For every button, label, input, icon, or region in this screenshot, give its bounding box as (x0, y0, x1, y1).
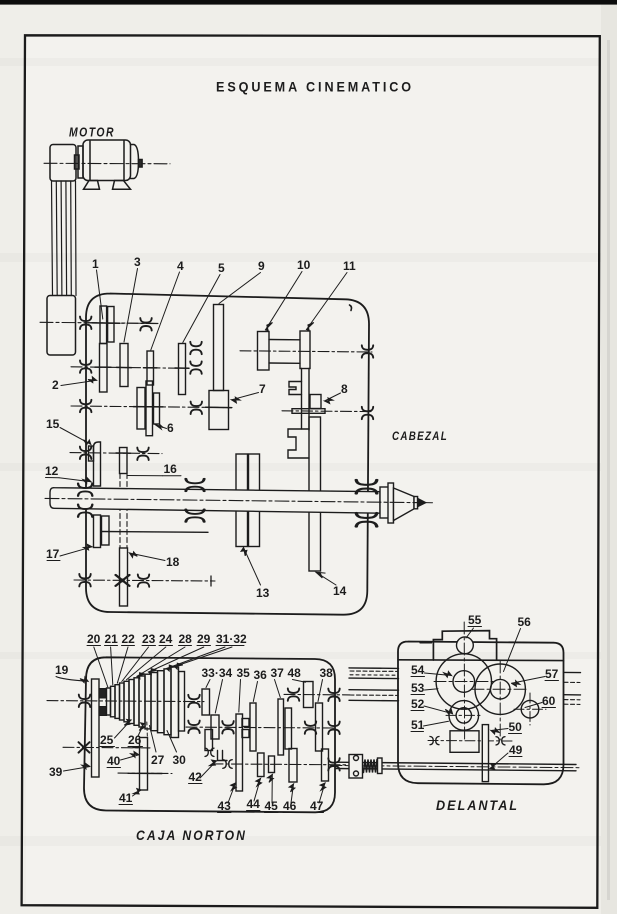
svg-text:47: 47 (310, 799, 324, 813)
bearing left edge shaft I (80, 317, 91, 329)
gear 5 (179, 344, 186, 395)
svg-text:45: 45 (265, 799, 279, 813)
norton cone gear 29 (151, 673, 158, 731)
svg-text:6: 6 (167, 421, 174, 435)
gear 14 (309, 417, 321, 571)
norton cone gear (134, 678, 139, 726)
norton cone gear (158, 671, 165, 733)
svg-text:5: 5 (218, 261, 225, 275)
spindle nose cone (394, 488, 415, 521)
bearing shaft IV right of gear 16 (137, 448, 148, 460)
gear 56 horizontal centerline (472, 688, 529, 690)
bearing left edge shaft IV (80, 447, 91, 459)
svg-text:8: 8 (341, 382, 348, 396)
clutch plate on shaft VI (292, 409, 325, 414)
shaft IV centerline (70, 453, 162, 454)
svg-text:53: 53 (411, 681, 425, 695)
bearing shaft I right (140, 318, 151, 330)
gear 60 vertical centerline (529, 693, 531, 725)
gear 37 companion (285, 708, 292, 749)
bearing mid spindle top (186, 479, 204, 491)
svg-text:22: 22 (122, 632, 136, 646)
vertical centerline through 55 53 52 (463, 622, 465, 741)
spindle body (50, 488, 380, 514)
shaft I centerline (88, 322, 160, 325)
rods exiting right of delantal (564, 671, 581, 673)
delantal housing box (398, 642, 564, 785)
bearing above gear 5 lower (190, 361, 201, 373)
gear 57 hub circle (490, 679, 510, 699)
svg-text:54: 54 (411, 663, 425, 677)
motor axis centerline (44, 162, 170, 165)
gear 53 horizontal centerline (434, 681, 493, 683)
hub tick shaft II through gear 5 (175, 367, 189, 369)
gear 17 hub line (101, 531, 208, 534)
svg-text:17: 17 (46, 547, 60, 561)
bearing shaft 4 thrust (223, 760, 232, 769)
long feed shaft upper line (336, 762, 577, 764)
svg-text:50: 50 (509, 720, 523, 734)
gear 60 circle (521, 700, 539, 718)
bearing norton shaft 3 left edge (79, 742, 90, 752)
bearing left edge shaft VII (79, 574, 90, 586)
gear 40 hub tick (133, 747, 140, 749)
hub tick shaft II through gear 3 (117, 366, 132, 368)
gear 8 (310, 395, 321, 409)
svg-text:51: 51 (411, 718, 425, 732)
lead screw upper line (349, 667, 399, 670)
bearing worm shaft right (496, 737, 505, 745)
delantal lid seam (398, 659, 564, 662)
clutch 35 lower block (242, 730, 249, 738)
gear 17 cluster right (102, 516, 110, 545)
svg-text:16: 16 (164, 462, 178, 476)
svg-text:2: 2 (52, 378, 59, 392)
worm bracket plate (349, 755, 363, 779)
top scan bar (0, 0, 617, 5)
gear 51 hub circle (456, 708, 471, 723)
gear 17 cluster left (94, 515, 101, 548)
hub tick shaft I through gear 1 (92, 322, 120, 324)
motor shaft stub (139, 160, 143, 168)
bearing left edge shaft III (80, 400, 91, 412)
gear 13 right (249, 454, 260, 547)
bearing shaft III right of gear 6 (191, 402, 202, 414)
bearing norton left edge cone shaft (79, 695, 90, 707)
gear 4 (147, 351, 154, 385)
gear 3 (120, 344, 128, 387)
bearing shaft VII mid (138, 574, 149, 586)
svg-text:26: 26 (128, 733, 142, 747)
bearing right edge shaft VI (362, 407, 373, 419)
bearing cone right (188, 695, 199, 707)
lead screw lower line (349, 677, 399, 680)
norton cone gear 28 (139, 676, 145, 727)
norton cone gear 21 (111, 686, 116, 717)
svg-text:4: 4 (177, 259, 184, 273)
worm box (450, 731, 479, 753)
gear 10 (258, 332, 270, 371)
norton shaft 2 centerline (186, 726, 334, 729)
svg-text:21: 21 (105, 632, 119, 646)
svg-text:28: 28 (179, 632, 193, 646)
bearing shaft 2 right (305, 721, 316, 733)
shaft VII end tick (210, 576, 212, 586)
norton shaft 3 centerline (63, 746, 150, 749)
dog clutch notch upper (289, 382, 302, 395)
svg-text:CAJA NORTON: CAJA NORTON (136, 827, 247, 843)
long feed shaft centerline (330, 765, 580, 767)
svg-text:33·34: 33·34 (202, 666, 233, 680)
svg-text:9: 9 (258, 259, 265, 273)
svg-text:11: 11 (343, 259, 356, 273)
bearing feed shaft edge (328, 689, 339, 701)
gear 1 left half (100, 306, 107, 344)
bearing shaft 2 left (188, 721, 199, 733)
motor body (83, 140, 131, 181)
gear 9 (214, 305, 224, 391)
motor pulley (75, 155, 80, 169)
svg-text:1: 1 (92, 257, 99, 271)
norton shaft 3 hub line (118, 772, 172, 774)
gear 13 left (236, 454, 248, 547)
worm bracket circle upper (354, 756, 359, 761)
svg-text:42: 42 (189, 770, 203, 784)
svg-text:56: 56 (518, 615, 532, 629)
gear 52 outer circle (449, 701, 479, 731)
svg-text:ESQUEMA CINEMATICO: ESQUEMA CINEMATICO (216, 80, 414, 95)
bearing above gear 5 upper (190, 342, 201, 354)
clutch stem below gear 11 (301, 369, 303, 430)
caja norton housing box (84, 657, 335, 812)
bearing worm shaft left (430, 736, 439, 744)
gear 48 (304, 682, 314, 708)
long feed shaft lower line (336, 769, 577, 771)
svg-text:39: 39 (49, 765, 63, 779)
worm bracket circle lower (354, 771, 359, 776)
motor right cap (131, 145, 139, 179)
gear 1 right half (108, 307, 114, 343)
spline block upper (99, 689, 107, 699)
norton cone shaft centerline (47, 701, 204, 702)
gear 37 (278, 699, 284, 755)
hub tick shaft IV through gear 16 (116, 452, 131, 454)
svg-text:40: 40 (107, 754, 121, 768)
shaft II centerline (71, 367, 178, 368)
gear 38 (316, 703, 323, 751)
motor left end plate (78, 146, 83, 178)
motor foot right (113, 181, 131, 190)
gear 55 circle (457, 637, 474, 654)
svg-text:10: 10 (297, 258, 311, 272)
gear 42 step link (218, 751, 228, 761)
gear 2 (100, 344, 108, 393)
spindle nose cylinder (414, 497, 418, 509)
norton cone gear 20 (107, 688, 111, 715)
svg-text:24: 24 (159, 632, 173, 646)
svg-text:DELANTAL: DELANTAL (436, 797, 519, 813)
worm shaft centerline (428, 740, 512, 743)
worm teeth (364, 760, 378, 773)
svg-text:60: 60 (542, 694, 556, 708)
norton cone gear 31 (164, 669, 171, 735)
pulley shaft centerline (40, 322, 158, 323)
gear 45 (269, 756, 275, 773)
spindle flange plate (388, 483, 394, 523)
svg-text:23: 23 (142, 632, 156, 646)
bearing mid spindle bottom (186, 509, 204, 521)
gear 16 (120, 448, 128, 474)
bearing under gear 42 (205, 748, 214, 756)
bearing right edge shaft V (362, 345, 373, 357)
bearing right edge spindle top (356, 480, 377, 494)
norton shaft 4 centerline (212, 763, 348, 766)
hub tick shaft III through gear 7 (206, 406, 232, 408)
svg-text:41: 41 (119, 791, 133, 805)
gear 53 outer circle (436, 654, 491, 709)
svg-text:13: 13 (256, 586, 270, 600)
gear 34 (211, 715, 219, 739)
gear 6 cluster left (137, 388, 145, 430)
belt lines (52, 181, 53, 296)
svg-text:30: 30 (173, 753, 187, 767)
norton cone gear 32 (171, 667, 179, 738)
bearing left edge spindle top (78, 484, 92, 496)
svg-text:49: 49 (509, 743, 523, 757)
dog clutch notch lower (288, 429, 309, 458)
gear 47 (322, 749, 329, 781)
gear 60 horizontal centerline (514, 708, 546, 710)
norton cone gear 22 (115, 685, 120, 719)
norton feed shaft centerline (284, 693, 350, 696)
svg-text:MOTOR: MOTOR (69, 126, 115, 140)
bearing left edge spindle bottom (78, 505, 92, 517)
svg-text:57: 57 (545, 667, 559, 681)
gear 11 (300, 331, 310, 369)
svg-text:31·32: 31·32 (216, 632, 247, 646)
gear 18 slide dashed guide (119, 474, 121, 549)
spindle center point (418, 499, 426, 507)
svg-text:38: 38 (320, 666, 334, 680)
bearing left edge shaft II (80, 360, 91, 372)
worm right plate (378, 758, 383, 774)
stub line left of tower (420, 642, 432, 644)
gear 40 41 (140, 738, 148, 791)
spindle axis centerline (45, 498, 425, 502)
cabezal housing box (86, 294, 369, 615)
svg-text:48: 48 (288, 666, 302, 680)
gear 56 outer circle (475, 664, 525, 714)
bearing shaft 2 edge (328, 722, 339, 734)
bearing feed shaft left (288, 688, 299, 700)
svg-text:15: 15 (46, 417, 60, 431)
feed rod lower line (349, 699, 399, 702)
norton cone gear 23 (120, 683, 125, 720)
gear 43 (236, 714, 243, 791)
gear 6 cluster right (154, 393, 160, 424)
svg-text:14: 14 (333, 584, 347, 598)
gear 56 vertical centerline (499, 661, 501, 740)
clutch 35 upper block (242, 719, 249, 727)
spindle flange (380, 487, 390, 518)
svg-text:29: 29 (197, 632, 211, 646)
svg-text:CABEZAL: CABEZAL (392, 429, 448, 443)
gear 41 hub tick (128, 772, 162, 774)
shaft VII centerline (74, 580, 215, 581)
shaft V centerline (240, 351, 372, 352)
gear 52 horizontal centerline (446, 714, 482, 716)
svg-text:18: 18 (166, 555, 180, 569)
gear 18 (120, 548, 128, 606)
gear 6 cluster middle (146, 381, 153, 436)
svg-text:19: 19 (55, 663, 69, 677)
gear 36 (250, 703, 256, 751)
norton cone gear 24 (124, 681, 129, 722)
norton cone gear (129, 680, 134, 724)
shaft VI centerline (282, 410, 372, 413)
svg-text:46: 46 (283, 799, 297, 813)
motor foot left (84, 181, 100, 190)
gear 12 cluster (94, 442, 101, 486)
bearing shaft 2 mid (222, 721, 233, 733)
norton cone gear (145, 674, 151, 729)
svg-text:25: 25 (100, 733, 114, 747)
lead screw thread dashes (350, 670, 398, 672)
hub tick shaft II through gear 4 (144, 367, 158, 369)
svg-text:52: 52 (411, 697, 425, 711)
svg-text:44: 44 (247, 797, 261, 811)
bearing shaft VII at gear 18 (116, 575, 130, 586)
feed rod dashes (350, 694, 398, 696)
delantal tower (433, 631, 496, 660)
svg-text:36: 36 (254, 668, 268, 682)
svg-text:20: 20 (87, 632, 101, 646)
pen mark hook (350, 305, 352, 311)
belt pulley upper block (50, 145, 76, 182)
gear 42 (205, 730, 213, 751)
hub tick shaft II through gear 2 (95, 366, 111, 368)
svg-text:3: 3 (134, 255, 141, 269)
shaft III centerline (71, 406, 232, 408)
gear 19 (92, 679, 100, 777)
gear 46 (289, 749, 297, 783)
svg-text:12: 12 (45, 464, 59, 478)
feed rod upper line (349, 689, 399, 692)
gear 15 sleeve (89, 446, 94, 461)
hub tick shaft III through gear 6 (134, 406, 164, 408)
sleeve between gear 10 and 11 (269, 339, 300, 341)
svg-text:27: 27 (151, 753, 165, 767)
svg-text:7: 7 (259, 382, 266, 396)
label 26 dashed guide (146, 722, 149, 740)
gear 44 (258, 753, 265, 777)
svg-text:55: 55 (468, 613, 482, 627)
spline block lower (99, 707, 107, 716)
svg-text:37: 37 (271, 666, 285, 680)
belt pulley lower block (47, 296, 76, 356)
bearing right edge spindle bottom (356, 513, 377, 527)
gear 7 (209, 391, 229, 430)
svg-text:35: 35 (237, 666, 251, 680)
norton cone gear last (179, 672, 185, 732)
bearing shaft 4 edge (328, 758, 339, 770)
rack bar 50 (482, 725, 488, 782)
gear 33 (202, 689, 210, 715)
gear 54 hub circle (453, 671, 475, 693)
